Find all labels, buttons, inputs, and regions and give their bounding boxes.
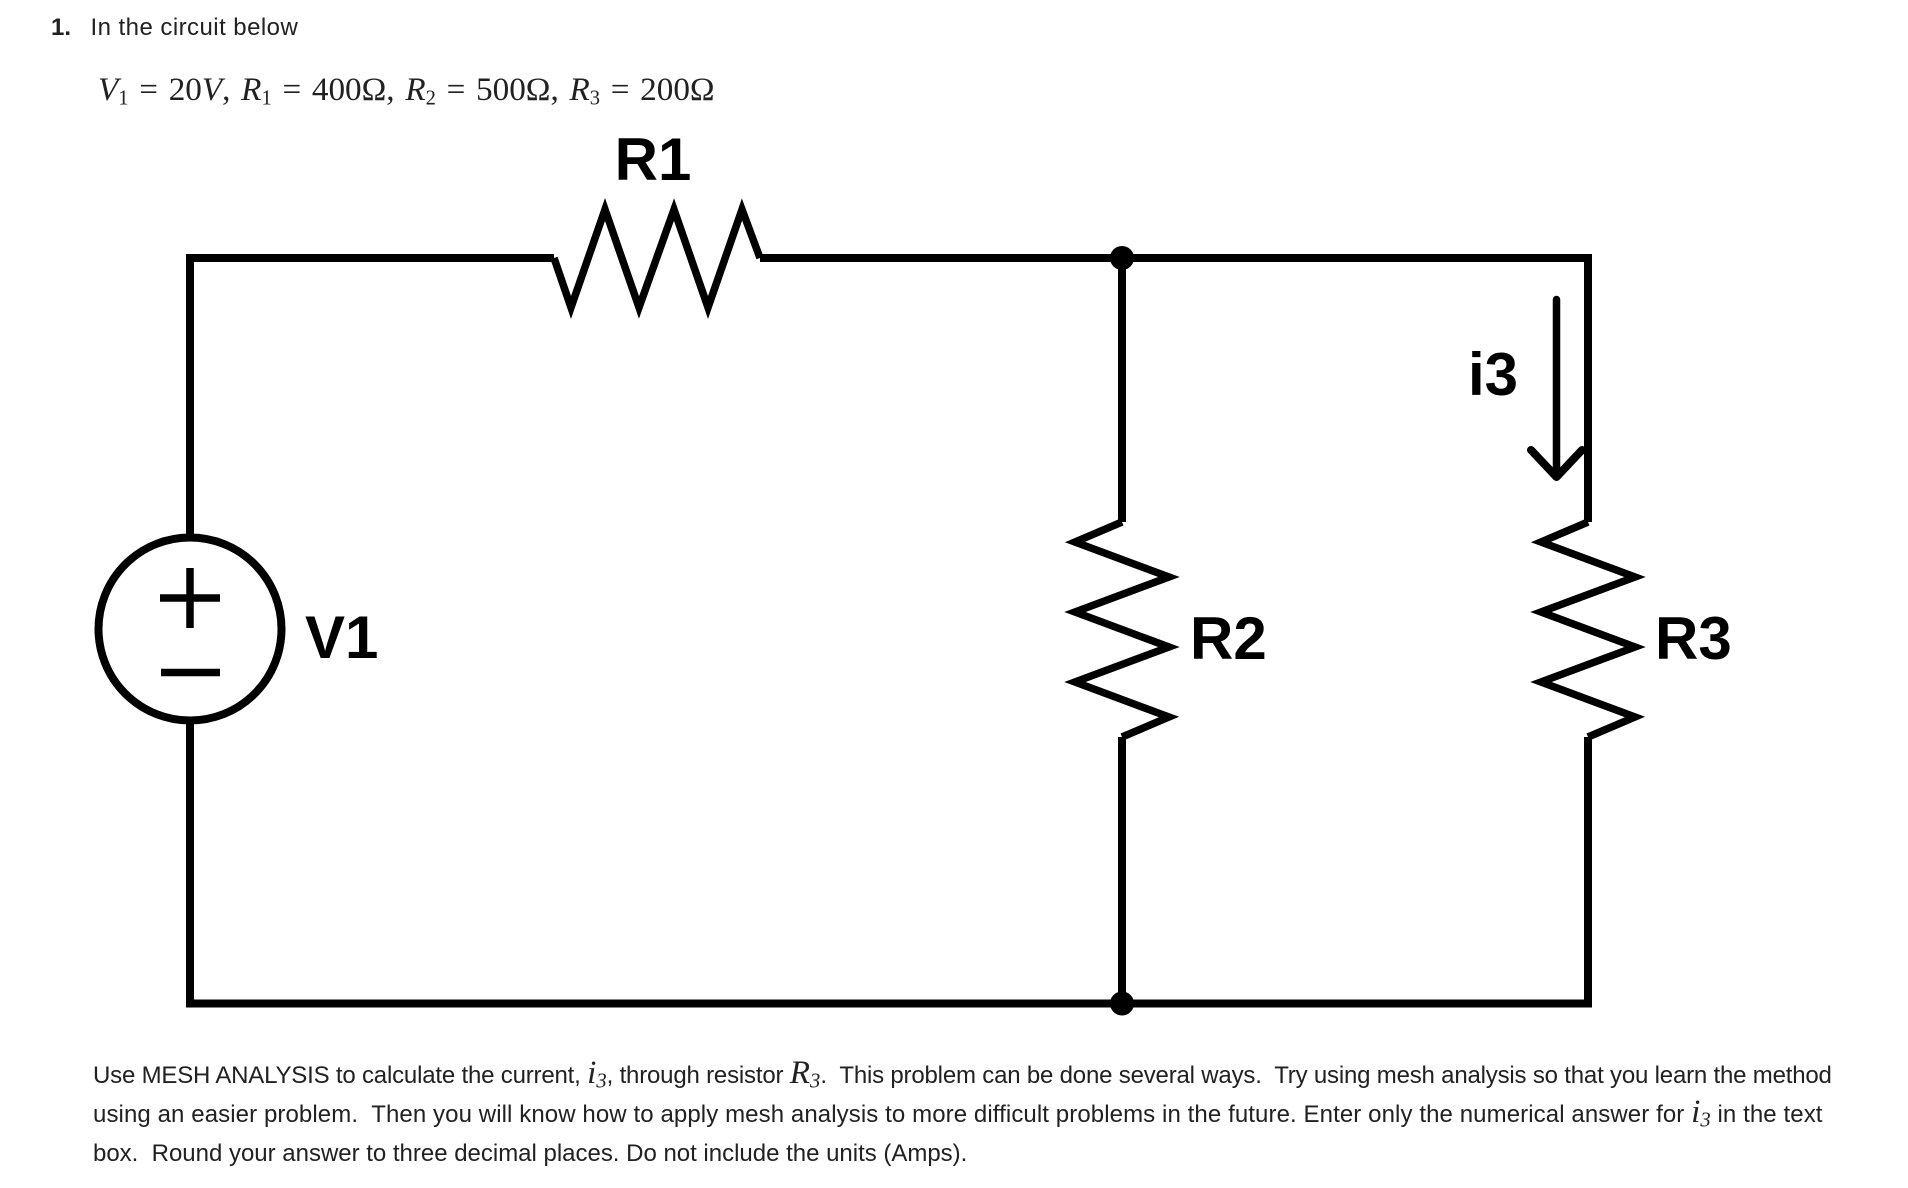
resistor R1 (zigzag, horizontal) [554,210,760,308]
wire: top-left horizontal from V1 branch to R1 [190,254,554,262]
question paragraph [93,1056,1832,1173]
junction node dot (bottom) [1110,992,1134,1016]
wire: right vertical upper (top corner to R3) [1584,254,1592,522]
formula V1 = 20V, R1 = 400ohm, R2 = 500ohm, R3 = 200ohm [98,73,715,106]
wire: left vertical upper (top corner to V1 top) [186,254,194,538]
item number 1. [51,16,71,40]
V1 minus sign [161,669,220,677]
wire: bottom horizontal [186,1000,1592,1008]
junction node dot (top, node between R1/R2/R3) [1110,246,1134,270]
current arrow i3 (head chevron) [1531,450,1582,477]
wire: middle branch vertical lower (R2 to bottom junction) [1118,737,1126,1004]
svg-text:i3: i3 [1468,341,1518,408]
voltage source V1 circle [99,538,282,721]
wire: right vertical lower (R3 to bottom corner) [1584,737,1592,1008]
wire: left vertical lower (V1 bottom to bottom corner) [186,721,194,1008]
svg-text:V1: V1 [305,604,378,671]
wire: top horizontal from R1 to top-right corner [760,254,1588,262]
current arrow i3 (stem) [1553,300,1561,471]
svg-text:R3: R3 [1655,605,1732,672]
resistor R2 (zigzag, vertical) [1075,522,1169,737]
heading: In the circuit below [91,16,299,40]
svg-text:R1: R1 [615,126,692,193]
V1 plus sign [160,568,220,628]
wire: middle branch vertical upper (junction to R2) [1118,258,1126,522]
resistor R3 (zigzag, vertical) [1541,522,1635,737]
svg-text:R2: R2 [1190,605,1267,672]
